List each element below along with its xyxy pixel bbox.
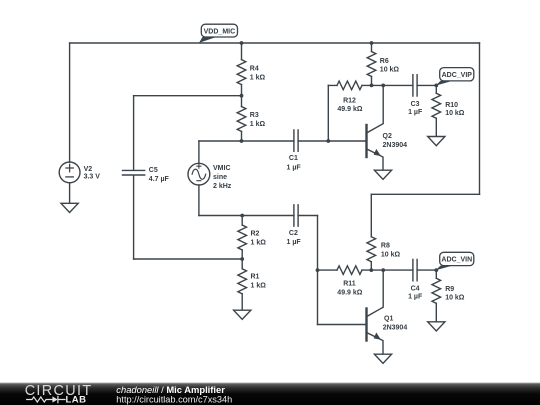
svg-text:49.9 kΩ: 49.9 kΩ [337, 106, 362, 113]
C5 labels [149, 167, 170, 183]
svg-text:http://circuitlab.com/c7xs34h: http://circuitlab.com/c7xs34h [116, 395, 232, 405]
svg-text:2N3904: 2N3904 [383, 324, 408, 331]
node Q2 collector junction [381, 84, 385, 88]
wire feedback vertical (top amp) [327, 85, 329, 141]
node R4-R3-C5 junction [240, 94, 244, 98]
capacitor C4 [413, 259, 417, 280]
R10 labels [445, 102, 465, 117]
R11 labels [337, 280, 362, 296]
resistor R9 [432, 270, 441, 322]
wire C4 to ADC_VIN node [417, 269, 436, 271]
R12 labels [337, 98, 362, 113]
R6 labels [380, 58, 400, 73]
C3 labels [408, 101, 423, 116]
resistor R4 [237, 43, 246, 96]
R9 labels [445, 286, 465, 301]
svg-text:C3: C3 [411, 101, 420, 108]
capacitor C2 [294, 205, 298, 226]
footer bar [0, 383, 540, 405]
node R2-R1-C5 junction [240, 257, 244, 261]
svg-text:LAB: LAB [66, 395, 87, 405]
R3 labels [250, 112, 266, 128]
svg-text:1 kΩ: 1 kΩ [250, 121, 266, 128]
wire V2 to ground [69, 183, 71, 204]
R2 labels [251, 231, 267, 247]
CircuitLab logo squiggle (resistor + diode) [27, 396, 65, 402]
resistor R10 [432, 85, 441, 136]
svg-text:10 kΩ: 10 kΩ [445, 110, 465, 117]
resistor R6 [367, 43, 376, 85]
wire V2 to rail [69, 43, 71, 162]
svg-text:1 kΩ: 1 kΩ [251, 283, 267, 290]
svg-text:2 kHz: 2 kHz [213, 183, 232, 190]
net flag VDD_MIC [199, 24, 238, 43]
ground (Q2 emitter) [374, 170, 391, 179]
node Q1 collector junction [381, 268, 385, 272]
ground (R9) [428, 322, 445, 331]
transistor Q2 [367, 85, 384, 170]
wire C2 to feedback tee [298, 215, 317, 217]
node ADC_VIN node [434, 268, 438, 272]
svg-text:1 µF: 1 µF [408, 109, 423, 116]
capacitor C3 [413, 75, 417, 96]
resistor R3 [237, 96, 246, 141]
V2 labels [84, 166, 101, 181]
svg-text:R1: R1 [251, 274, 260, 281]
C2 labels [287, 230, 302, 246]
svg-text:R8: R8 [381, 243, 390, 250]
svg-text:R10: R10 [445, 102, 458, 109]
node R6-R12 junction [370, 84, 374, 88]
resistor R2 [238, 216, 247, 260]
resistor R12 [328, 81, 371, 90]
svg-text:10 kΩ: 10 kΩ [381, 252, 401, 259]
resistor R1 [238, 259, 247, 310]
wire C3 to ADC_VIP node [417, 84, 436, 86]
svg-text:C5: C5 [149, 167, 158, 174]
wire VDD top rail [70, 42, 480, 44]
svg-text:2N3904: 2N3904 [383, 142, 408, 149]
svg-text:Q2: Q2 [383, 133, 392, 140]
svg-text:1 µF: 1 µF [287, 239, 302, 246]
C1 labels [287, 155, 302, 171]
transistor Q1 [367, 270, 384, 354]
svg-text:ADC_VIN: ADC_VIN [441, 257, 472, 264]
ground (Q1 emitter) [374, 354, 391, 363]
ground (R10) [428, 137, 445, 146]
svg-text:R6: R6 [380, 58, 389, 65]
svg-text:1 µF: 1 µF [287, 164, 302, 171]
svg-text:C2: C2 [289, 230, 298, 237]
wire collector node to C4 [371, 269, 413, 271]
net flag ADC_VIP [436, 68, 474, 86]
svg-text:R11: R11 [343, 280, 356, 287]
svg-text:R3: R3 [250, 112, 259, 119]
svg-text:R2: R2 [251, 231, 260, 238]
ground (R1) [234, 310, 251, 319]
svg-text:sine: sine [213, 174, 227, 181]
svg-text:Q1: Q1 [384, 316, 393, 323]
voltage source V2 [59, 162, 80, 183]
wire VDD right drop [479, 43, 481, 194]
wire VMIC to C1 [199, 140, 294, 142]
node R4 top on VDD rail [240, 41, 244, 45]
svg-text:4.7 µF: 4.7 µF [149, 176, 170, 183]
wire to Q1 base [318, 324, 367, 326]
wire C5 bottom to R2-R1 node [134, 258, 243, 260]
net flag ADC_VIN [436, 252, 474, 270]
C4 labels [408, 286, 423, 301]
svg-text:ADC_VIP: ADC_VIP [442, 72, 473, 79]
wire VDD feed to R8 [371, 193, 479, 195]
node R8-R11 junction [369, 268, 373, 272]
wire R4-R3 node to C5 top [134, 95, 242, 97]
node ADC_VIP node [434, 84, 438, 88]
R8 labels [381, 243, 401, 259]
svg-text:V2: V2 [84, 166, 93, 173]
resistor R11 [318, 266, 372, 275]
node R3 bottom on mic wire [240, 139, 244, 143]
svg-text:1 µF: 1 µF [408, 294, 423, 301]
svg-text:10 kΩ: 10 kΩ [380, 66, 400, 73]
R1 labels [251, 274, 267, 290]
Q2 labels [383, 133, 408, 149]
svg-text:49.9 kΩ: 49.9 kΩ [337, 290, 362, 297]
VMIC labels [213, 165, 232, 190]
svg-text:VDD_MIC: VDD_MIC [204, 28, 236, 35]
source VMIC [188, 163, 210, 185]
wire feedback vertical (bottom amp) [317, 216, 319, 325]
svg-text:R4: R4 [250, 65, 259, 72]
svg-text:1 kΩ: 1 kΩ [250, 74, 266, 81]
svg-text:R12: R12 [343, 98, 356, 105]
node Q1 feedback tee [316, 268, 320, 272]
wire VMIC to C2 [199, 215, 294, 217]
node Q2 base tee [326, 139, 330, 143]
svg-text:VMIC: VMIC [213, 165, 231, 172]
node R2 top on mic wire [240, 214, 244, 218]
svg-text:10 kΩ: 10 kΩ [445, 295, 465, 302]
svg-text:3.3 V: 3.3 V [84, 174, 101, 181]
R4 labels [250, 65, 266, 81]
svg-text:R9: R9 [445, 286, 454, 293]
svg-text:1 kΩ: 1 kΩ [251, 240, 267, 247]
node R6 top on VDD rail [370, 41, 374, 45]
svg-text:C4: C4 [411, 286, 420, 293]
wire collector node to C3 [372, 84, 413, 86]
capacitor C5 [123, 96, 145, 259]
svg-text:C1: C1 [289, 155, 298, 162]
resistor R8 [367, 194, 376, 270]
capacitor C1 [294, 130, 298, 151]
ground (V2) [61, 203, 78, 212]
Q1 labels [383, 316, 408, 332]
wire VMIC bottom lead [198, 185, 200, 216]
wire VMIC top lead [198, 141, 200, 164]
wire C1 to Q2 base [298, 140, 366, 142]
